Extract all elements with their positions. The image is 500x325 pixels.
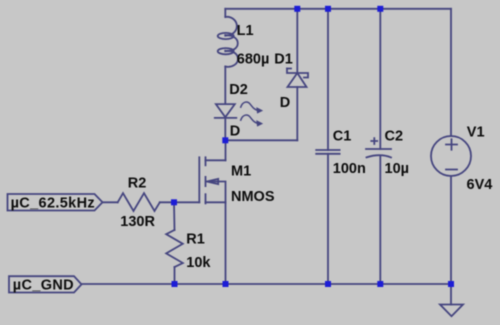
node junction M1 source bottom xyxy=(223,281,229,287)
flag uC_GND xyxy=(9,276,82,292)
wire C2 top lead xyxy=(379,9,381,149)
svg-text:D2: D2 xyxy=(229,82,248,98)
svg-text:V1: V1 xyxy=(467,125,485,141)
wire C1 bottom lead xyxy=(327,154,329,284)
svg-text:100n: 100n xyxy=(333,161,366,177)
svg-text:D1: D1 xyxy=(274,52,293,68)
wire node G to gate xyxy=(174,201,199,203)
svg-text:C1: C1 xyxy=(333,129,352,145)
inductor L1 xyxy=(218,17,238,67)
node junction top D1 xyxy=(294,6,300,12)
svg-text:M1: M1 xyxy=(231,163,251,179)
node junction C1 bottom xyxy=(325,281,331,287)
LED D2 xyxy=(215,102,262,126)
resistor R2 xyxy=(118,193,160,211)
wire D1 anode vertical xyxy=(296,87,298,140)
svg-text:NMOS: NMOS xyxy=(231,189,275,205)
wire M1 drain up xyxy=(225,140,227,160)
nmos M1 xyxy=(199,157,225,203)
svg-text:C2: C2 xyxy=(385,129,404,145)
wire V1 bottom lead xyxy=(450,176,452,284)
svg-text:L1: L1 xyxy=(237,23,254,39)
wire ground lead xyxy=(450,284,452,305)
flag uC_62.5kHz xyxy=(8,194,103,211)
node D junction xyxy=(222,137,228,143)
node junction top C1 xyxy=(325,6,331,12)
schottky diode D1 xyxy=(287,69,308,88)
node gate junction xyxy=(171,199,177,205)
voltage source V1 xyxy=(431,136,471,176)
svg-text:R1: R1 xyxy=(186,232,205,248)
svg-text:680µ: 680µ xyxy=(237,52,270,68)
node junction V1 bottom xyxy=(448,281,454,287)
svg-text:µC_GND: µC_GND xyxy=(13,278,74,294)
wire D1 cathode lead xyxy=(296,9,298,73)
wire L1 top lead xyxy=(224,9,226,17)
capacitor C1 xyxy=(316,150,339,154)
wire flag to R2 xyxy=(103,201,118,203)
resistor R1 xyxy=(166,230,183,267)
wire node G to R1 top xyxy=(173,202,176,230)
svg-text:6V4: 6V4 xyxy=(467,177,493,193)
wire D2 to node D xyxy=(224,118,226,140)
capacitor C2 (polarized) xyxy=(366,138,391,157)
wire M1 source down xyxy=(225,202,227,284)
wire C1 top lead xyxy=(327,9,329,150)
node junction C2 bottom xyxy=(377,281,383,287)
wire R2 to node G xyxy=(160,201,174,203)
wire V1 top lead xyxy=(450,9,452,136)
svg-text:D: D xyxy=(230,124,240,140)
svg-text:130R: 130R xyxy=(120,214,155,230)
wire C2 bottom lead xyxy=(379,157,381,285)
svg-text:µC_62.5kHz: µC_62.5kHz xyxy=(11,195,95,211)
svg-text:10µ: 10µ xyxy=(385,161,409,177)
wire top rail xyxy=(225,8,451,10)
wire R1 bottom lead xyxy=(174,267,176,284)
wire bottom rail xyxy=(82,283,452,285)
ground xyxy=(440,305,463,317)
svg-text:R2: R2 xyxy=(128,176,147,192)
wire L1 to D2 xyxy=(224,67,226,105)
node junction R1 bottom xyxy=(172,281,178,287)
svg-text:D: D xyxy=(280,95,290,111)
svg-text:10k: 10k xyxy=(186,255,211,271)
node junction top C2 xyxy=(377,6,383,12)
wire node D to D1 anode xyxy=(225,139,297,141)
